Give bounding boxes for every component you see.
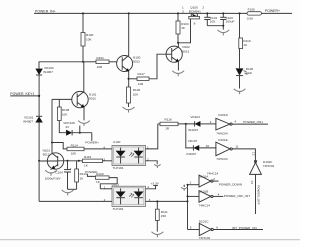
svg-text:U100: U100	[113, 140, 121, 144]
svg-text:R117: R117	[138, 72, 145, 76]
svg-text:IN4007: IN4007	[23, 120, 33, 124]
svg-text:F100: F100	[248, 8, 255, 12]
page border bottom	[0, 239, 300, 241]
LED D100	[236, 69, 243, 76]
svg-text:C104: C104	[55, 170, 63, 174]
optocoupler U101	[112, 182, 146, 211]
svg-text:R106: R106	[133, 88, 141, 92]
capacitor C100	[222, 13, 224, 17]
svg-text:9012: 9012	[133, 60, 140, 64]
diode VD104	[194, 121, 196, 126]
inverter D101D	[216, 113, 232, 135]
svg-text:74HC14: 74HC14	[207, 171, 219, 175]
svg-text:9012: 9012	[89, 97, 96, 101]
svg-text:15K: 15K	[161, 214, 167, 218]
svg-text:4: 4	[103, 145, 105, 149]
svg-text:74HC04: 74HC04	[216, 157, 228, 161]
svg-text:2: 2	[213, 177, 215, 181]
svg-text:74HC14: 74HC14	[199, 203, 211, 207]
wire R104 bottom to Q100 gate	[178, 19, 191, 43]
svg-text:105: 105	[210, 20, 215, 24]
wire R106 bottom	[128, 103, 130, 107]
svg-text:74HC04: 74HC04	[216, 131, 228, 135]
wire N101 base	[52, 98, 72, 100]
inverter D101B	[188, 189, 213, 207]
diode VD101	[36, 115, 42, 117]
wire main top rail	[34, 12, 292, 14]
svg-text:U101: U101	[112, 182, 120, 186]
svg-text:74HC04: 74HC04	[199, 236, 211, 240]
capacitor C104	[67, 161, 69, 170]
inverter D101E	[216, 138, 232, 161]
svg-text:D101E: D101E	[218, 138, 227, 142]
transistor N100	[117, 55, 141, 71]
resistor R120	[87, 174, 95, 177]
svg-text:R116: R116	[165, 118, 172, 122]
svg-text:+3.3V: +3.3V	[151, 181, 160, 185]
svg-text:2: 2	[210, 120, 212, 124]
wire N103 base (through)	[39, 160, 58, 162]
wire N103 emitter ground	[50, 169, 52, 170]
svg-text:10K: 10K	[71, 152, 77, 156]
svg-text:3: 3	[182, 9, 184, 13]
transistor N103	[43, 148, 64, 169]
svg-text:1: 1	[147, 145, 149, 149]
svg-text:IN4007: IN4007	[43, 70, 53, 74]
svg-text:R119: R119	[84, 155, 91, 159]
svg-text:+: +	[70, 166, 72, 170]
ground below caps	[217, 30, 229, 33]
resistor R117	[129, 78, 138, 80]
wire N103 right chain y160.8	[58, 160, 83, 162]
svg-text:R114: R114	[71, 144, 78, 148]
wire N102 emitter to ground	[177, 62, 179, 71]
svg-text:POWER_OFF_INT: POWER_OFF_INT	[224, 194, 250, 198]
wire C104/R113 join + ground	[68, 188, 77, 190]
svg-text:8: 8	[194, 21, 196, 25]
wire N100 collector	[128, 13, 130, 55]
resistor R100	[81, 33, 85, 47]
wire N101 collector	[83, 91, 85, 94]
svg-text:POWER_IN+: POWER_IN+	[35, 9, 56, 13]
node POWER+ stub (mid left)	[91, 133, 93, 141]
resistor R113	[76, 161, 78, 169]
svg-text:R104: R104	[181, 22, 189, 26]
capacitor C101	[206, 13, 208, 17]
wire main low rail y201.4	[39, 200, 112, 202]
svg-text:10K: 10K	[86, 38, 92, 42]
wire left branch from R100 to VD100	[39, 62, 83, 69]
ground below LED	[234, 89, 246, 92]
svg-text:10K: 10K	[133, 93, 139, 97]
svg-text:2: 2	[202, 6, 204, 10]
svg-text:LED: LED	[246, 71, 253, 75]
svg-text:4: 4	[147, 185, 149, 189]
resistor R108	[58, 99, 60, 107]
resistor R119 (inline)	[83, 159, 103, 163]
svg-text:6: 6	[216, 226, 218, 230]
svg-text:10K: 10K	[62, 112, 68, 116]
resistor R114	[52, 143, 67, 149]
wire R100 bottom	[82, 46, 84, 62]
svg-text:D101C: D101C	[199, 219, 209, 223]
svg-text:INT_POWER_ON: INT_POWER_ON	[232, 226, 257, 230]
ground below N101	[78, 121, 90, 124]
svg-text:TLP181: TLP181	[113, 166, 124, 170]
U101 right pin +3.3V	[146, 186, 156, 189]
optocoupler U100	[112, 140, 146, 170]
wire N101 emitter to ground	[83, 107, 85, 120]
wire N100 emitter down	[128, 71, 130, 87]
svg-text:BCM541: BCM541	[189, 10, 201, 14]
svg-text:3: 3	[103, 157, 105, 161]
fuse F100	[239, 12, 241, 14]
transistor N101	[72, 91, 97, 107]
svg-text:10: 10	[206, 144, 210, 148]
svg-text:POWER_DOWN: POWER_DOWN	[219, 182, 242, 186]
resistor R101	[83, 61, 96, 63]
U100 right pins	[146, 124, 158, 149]
transistor N102	[166, 45, 190, 62]
resistor R110 branch	[239, 13, 241, 38]
svg-text:1000uF16V: 1000uF16V	[45, 176, 62, 180]
svg-text:POWER_OFF: POWER_OFF	[256, 185, 260, 205]
transistor Q100 (inline dual, BCM541)	[182, 6, 204, 26]
svg-text:POWER+: POWER+	[265, 9, 280, 13]
svg-text:1: 1	[190, 181, 192, 185]
ground below N102	[172, 71, 184, 74]
resistor R111	[156, 201, 158, 209]
svg-text:R120: R120	[96, 172, 104, 176]
svg-text:1: 1	[104, 185, 106, 189]
inverter D101F (up)	[250, 160, 275, 174]
svg-text:IN4007: IN4007	[188, 128, 198, 132]
svg-text:VD107: VD107	[188, 139, 198, 143]
diode VD106 (zener 4V)	[59, 121, 66, 133]
svg-text:100uF: 100uF	[226, 20, 235, 24]
ground on column	[183, 185, 185, 187]
inverter D101C	[188, 219, 214, 240]
svg-text:13: 13	[250, 180, 254, 184]
wire N102 collector to R104 node	[177, 43, 179, 47]
svg-text:D101A: D101A	[199, 175, 209, 179]
resistor R116	[158, 123, 160, 125]
svg-text:D101D: D101D	[218, 113, 228, 117]
svg-text:9013: 9013	[182, 49, 189, 53]
svg-text:POWER+: POWER+	[85, 141, 99, 145]
svg-text:9012: 9012	[43, 153, 50, 157]
wire VD104 to VD107	[186, 124, 193, 148]
ground below R111	[152, 232, 164, 235]
svg-text:TLP181: TLP181	[113, 207, 124, 211]
svg-text:D101B: D101B	[199, 189, 208, 193]
ground below R106	[123, 107, 135, 110]
svg-text:11R: 11R	[138, 82, 144, 86]
svg-text:74HC04: 74HC04	[263, 164, 275, 168]
diode VD100	[36, 69, 43, 75]
diode VD107	[192, 145, 194, 150]
svg-text:10R: 10R	[97, 65, 103, 69]
svg-text:4: 4	[234, 120, 236, 124]
svg-text:4: 4	[218, 192, 220, 196]
svg-text:R101: R101	[97, 56, 105, 60]
U101 left pin1	[100, 188, 112, 190]
svg-text:0.5A: 0.5A	[247, 16, 254, 20]
inverter D101A	[188, 171, 219, 187]
svg-text:2: 2	[147, 157, 149, 161]
wire N101 base node down	[51, 99, 53, 153]
svg-text:VD104: VD104	[190, 115, 200, 119]
svg-text:5: 5	[190, 226, 192, 230]
resistor R104	[176, 21, 180, 34]
wire inverter input column	[187, 185, 189, 230]
svg-text:11: 11	[235, 144, 238, 148]
svg-text:12: 12	[252, 152, 256, 156]
resistor R106	[127, 87, 131, 103]
wire R100 branch vertical	[82, 13, 84, 32]
svg-text:R100: R100	[86, 33, 94, 37]
svg-text:POWER_ON1: POWER_ON1	[243, 120, 263, 124]
svg-text:IN4007: IN4007	[186, 152, 196, 156]
wire R117 to N102 base	[149, 54, 166, 79]
wire caps join	[207, 25, 223, 27]
